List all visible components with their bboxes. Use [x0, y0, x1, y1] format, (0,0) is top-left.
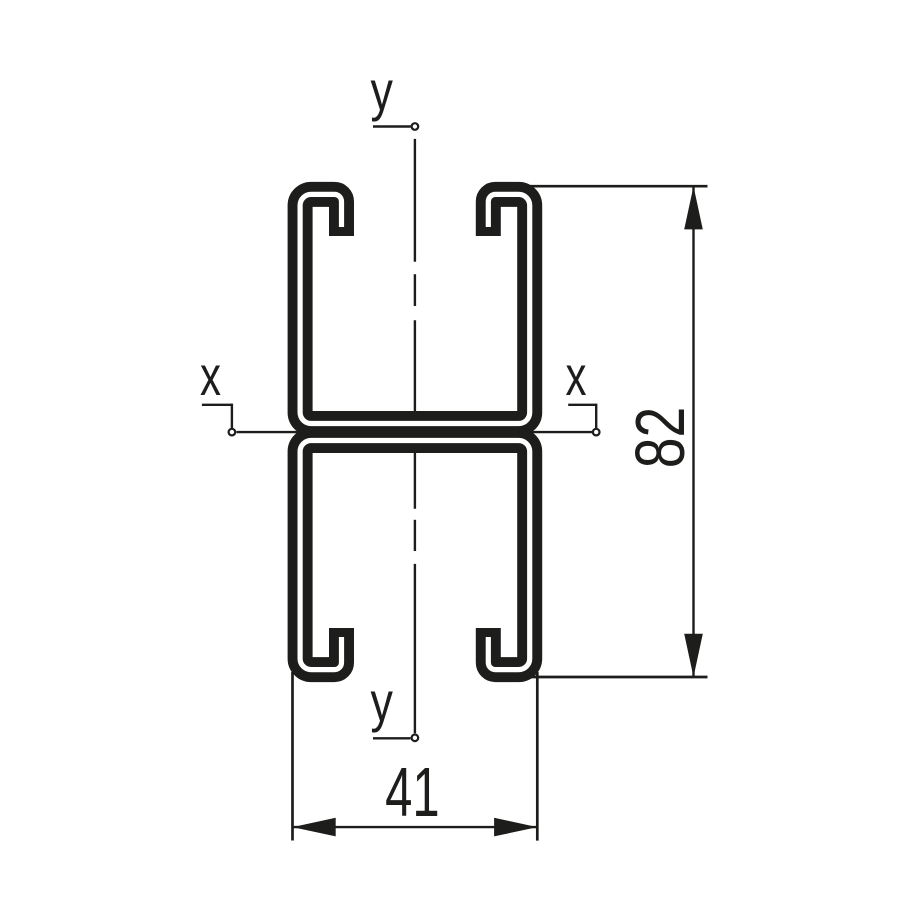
node marker top y-axis — [412, 123, 419, 130]
arrowhead 82 top — [684, 186, 703, 229]
arrowhead 41 left — [293, 818, 336, 837]
profile upper channel wall gap — [300, 194, 530, 423]
svg-text:41: 41 — [385, 752, 440, 831]
extension line 82 top — [527, 185, 708, 188]
x-axis right segment — [528, 431, 592, 433]
leader line right x label horizontal — [568, 404, 596, 406]
centerline y-axis dash 4 — [414, 520, 416, 551]
leader line left x label vertical — [231, 404, 233, 428]
svg-text:82: 82 — [622, 407, 700, 469]
centerline y-axis dash 2 — [414, 274, 416, 306]
leader underline top y label — [373, 125, 411, 127]
x-axis left segment — [237, 431, 301, 433]
svg-text:x: x — [200, 345, 221, 407]
centerline y-axis dash 1 — [414, 139, 416, 262]
extension line 41 left — [291, 672, 294, 841]
arrowhead 82 bottom — [684, 634, 703, 677]
profile lower channel outline — [300, 441, 530, 670]
profile lower channel wall gap — [300, 441, 530, 670]
node marker bottom y-axis — [412, 735, 419, 742]
leader line left x label horizontal — [202, 404, 232, 406]
svg-text:x: x — [565, 345, 586, 407]
dimension line 41 — [293, 826, 538, 828]
leader line right x label vertical — [595, 404, 597, 428]
wire — [202, 127, 596, 739]
extension line 41 right — [536, 672, 539, 841]
profile upper channel outline — [300, 194, 530, 423]
leader underline bottom y label — [373, 737, 411, 739]
extension line 82 bottom — [527, 676, 708, 679]
node marker left x-axis — [229, 429, 236, 436]
centerline y-axis dash 5 — [414, 564, 416, 733]
dimension line 82 — [692, 186, 694, 677]
svg-text:y: y — [370, 670, 393, 733]
svg-text:y: y — [370, 59, 393, 122]
arrowhead 41 right — [494, 818, 537, 837]
node marker right x-axis — [593, 429, 600, 436]
centerline y-axis dash 3 — [414, 320, 416, 509]
